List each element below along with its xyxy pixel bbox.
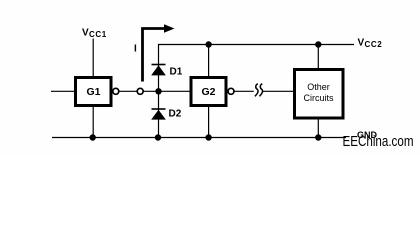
junction dot rail to other circuits bbox=[315, 41, 321, 47]
junction dot G1 to GND bbox=[90, 134, 96, 140]
wire G2 output to break bbox=[234, 90, 254, 92]
wire G1 output to pin bbox=[119, 90, 137, 92]
wire pin to G2 input bbox=[143, 90, 189, 92]
wire Vcc2 rail to G2 top bbox=[208, 45, 210, 77]
pin bubble G1 output bbox=[113, 88, 119, 94]
svg-text:EEChina.com: EEChina.com bbox=[343, 134, 414, 150]
junction dot D2 to GND bbox=[155, 134, 161, 140]
svg-text:I: I bbox=[134, 44, 137, 55]
current arrow I bbox=[143, 24, 175, 81]
wire G1 input bbox=[51, 90, 74, 92]
wire break to other circuits bbox=[263, 90, 293, 92]
diode D1 bbox=[151, 65, 183, 78]
node Vcc2 label bbox=[358, 38, 383, 50]
diode D2 bbox=[151, 109, 182, 120]
wire GND rail bbox=[52, 137, 346, 139]
break symbol bbox=[255, 84, 263, 97]
wire G1 bottom to GND rail bbox=[92, 107, 94, 138]
svg-text:G1: G1 bbox=[86, 86, 100, 98]
wire Vcc2 rail to other circuits top bbox=[317, 45, 319, 69]
gate G1 bbox=[76, 78, 112, 106]
pin bubble G2 output bbox=[228, 88, 234, 94]
block other circuits bbox=[295, 70, 344, 119]
svg-text:V: V bbox=[82, 28, 89, 39]
junction dot rail to G2 bbox=[205, 41, 211, 47]
svg-text:V: V bbox=[358, 38, 365, 49]
junction dot G2 to GND bbox=[205, 134, 211, 140]
wire Vcc2 rail bbox=[158, 44, 354, 46]
svg-text:CC1: CC1 bbox=[89, 30, 107, 39]
svg-text:CC2: CC2 bbox=[365, 40, 383, 49]
wire Vcc1 stub to G1 top bbox=[92, 39, 94, 77]
svg-text:Other: Other bbox=[307, 82, 330, 92]
wire other circuits bottom to GND rail bbox=[317, 120, 319, 138]
wire clamp net vertical bbox=[158, 45, 160, 138]
node Vcc1 label bbox=[82, 28, 107, 40]
gate G2 bbox=[191, 78, 226, 106]
svg-text:G2: G2 bbox=[201, 86, 215, 98]
svg-text:D1: D1 bbox=[170, 67, 183, 78]
svg-text:Circuits: Circuits bbox=[303, 93, 334, 103]
junction dot other circuits to GND bbox=[315, 134, 321, 140]
wire G2 bottom to GND rail bbox=[208, 107, 210, 138]
pin bubble G2 input pin bbox=[137, 88, 143, 94]
node A junction dot bbox=[155, 88, 161, 94]
svg-text:D2: D2 bbox=[169, 109, 182, 120]
